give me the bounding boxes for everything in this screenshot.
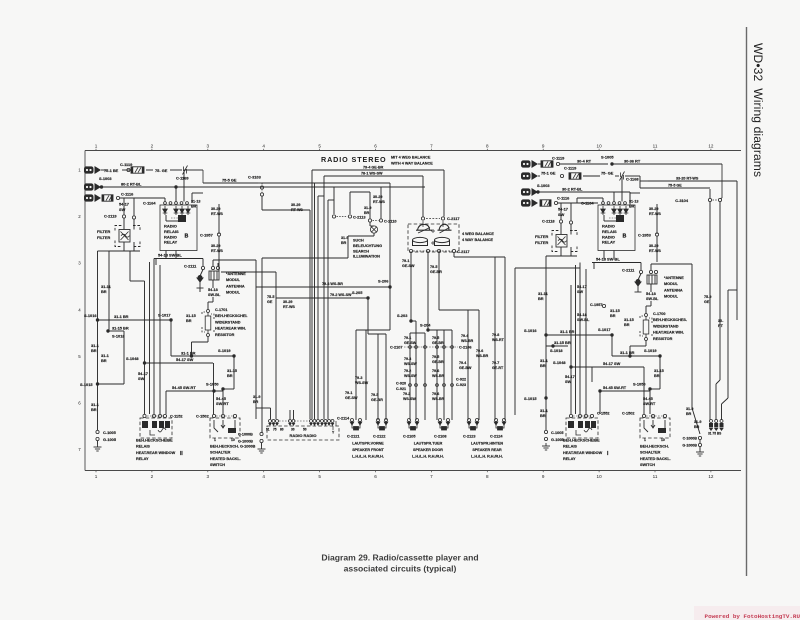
svg-text:79-3: 79-3 [355,376,362,380]
wire row2r d [625,175,640,177]
wire 30-29 relay right [656,204,658,234]
svg-text:BEH.HECKSCHEIBE: BEH.HECKSCHEIBE [563,439,600,443]
wire long vertical b top [221,271,276,273]
relay diode c left [180,206,185,215]
svg-text:30-29: 30-29 [373,195,382,199]
splice node S-204 [426,328,429,331]
label 31-9 BR lamp2 [341,236,348,245]
label 79-4 GE-BR rear2 [459,361,472,370]
svg-text:MODUL: MODUL [664,282,679,286]
label 79-5 GE-BR door [432,336,444,345]
label ANTENNE MODUL right [664,276,684,299]
connector C-2117 top a [421,217,424,220]
antenna module pin b right [654,270,657,273]
wire door col d [436,333,438,420]
title note MIT 4 WEG BALANCE [391,156,433,166]
svg-text:C-1953: C-1953 [638,233,652,238]
label RADIO RADIO [290,433,317,438]
speaker connector C-2123 [467,419,479,431]
label 30- right [718,319,724,328]
splice node S-1048 right [569,365,572,368]
wire right edge v 720 [719,202,721,381]
relay internal dash [171,217,178,219]
svg-text:BR: BR [540,413,546,418]
wire 54-18 right drop end [593,263,595,270]
svg-text:30-29: 30-29 [211,244,220,248]
svg-text:BR: BR [101,289,107,294]
terminal row1 left [127,168,130,171]
splice node S-1048 left [143,361,146,364]
svg-text:75-5 GE: 75-5 GE [222,178,237,183]
switch arrow a right [644,420,648,432]
relay blob d right [591,421,596,428]
svg-text:7: 7 [430,474,433,479]
svg-text:GE: GE [267,300,273,304]
label BEH HECKSCH SCHALTER left [210,445,256,468]
svg-text:BR: BR [101,358,107,363]
relay blob a right [568,421,574,428]
wire rear feed y310 [439,309,479,311]
wire row4r drop a [560,203,562,220]
svg-text:31-15: 31-15 [610,309,620,313]
svg-text:RT-WS: RT-WS [649,249,661,253]
label 30-29 RT-WS loops [373,195,385,204]
svg-text:2: 2 [78,214,81,219]
svg-text:31-1 BR: 31-1 BR [620,350,635,355]
svg-text:54-17: 54-17 [119,202,129,207]
svg-text:Powered by FotoHostingTV.RU: Powered by FotoHostingTV.RU [705,613,800,620]
wire radio feed v 328 [327,200,329,419]
svg-text:SCHALTER: SCHALTER [210,451,231,455]
svg-text:4: 4 [262,144,265,149]
svg-text:10: 10 [597,474,603,479]
wire filter left bottom a [123,242,125,251]
wire S-1017 down [170,320,172,356]
wire module out down [212,280,214,288]
svg-text:BR: BR [629,204,635,208]
wire switch feed drop [165,391,167,414]
svg-text:WS-BR: WS-BR [432,397,445,401]
connector C-2110 a [368,219,371,222]
wire 75-1 BE row1 a [101,169,107,171]
svg-text:RELAIS: RELAIS [164,229,179,234]
svg-text:S-1015: S-1015 [80,382,93,387]
wire relay feed v1 [144,281,146,414]
label 79-6 WS-BR rear [476,349,489,358]
svg-text:BEH.HECKSCHEIBE: BEH.HECKSCHEIBE [136,439,173,443]
connector C-2117 bottom b [426,249,429,252]
label LAUTSPR HINTEN [471,442,504,459]
svg-text:C-1119: C-1119 [120,162,133,167]
svg-text:BR: BR [654,374,660,378]
connector C-2113 a [332,215,335,218]
svg-text:RADIO: RADIO [602,224,615,229]
wire C-2118 to filter right [560,223,562,234]
svg-text:54-18 SW-BL: 54-18 SW-BL [158,253,182,258]
connector C-1957 terminal left [217,233,220,236]
label 31-1 right c [540,358,549,368]
wire right edge v 716 [715,384,717,420]
svg-text:30-29: 30-29 [649,244,658,248]
antenna mast symbol right [635,280,642,293]
wire 30-29 RT-WS relay right [218,204,220,234]
label 30-29 RT-WS mid [291,203,303,212]
svg-text:31-15: 31-15 [186,314,196,318]
radio relay right top terminals [0,0,1,1]
radio unit box [267,426,339,440]
radio pin dashed row [279,420,310,422]
svg-text:31-13: 31-13 [191,200,200,204]
label 79-8 WS-RT rear [492,333,505,342]
wire relay feed v1b [149,262,151,414]
svg-text:S-1018: S-1018 [550,348,563,353]
relay coil mark right [576,428,592,435]
svg-text:BELEUCHTUNG: BELEUCHTUNG [353,244,382,248]
wire 75-5 GE extend [262,182,390,184]
radio relay left top terminals C-1164 [0,0,1,1]
svg-text:11: 11 [653,144,658,149]
wire C-3103 link [261,183,263,186]
relay diode d left [186,206,191,215]
antenna module pin a right [649,270,652,273]
wire front sp b top [368,333,386,335]
wire relay right pin1 across b [576,198,578,203]
label 31-9 right edge [686,407,693,416]
svg-text:C-1552: C-1552 [597,412,609,416]
wire mid drop from 210 [309,210,311,419]
page sidebar divider rule [746,27,748,576]
wire C-2119 to filter [123,218,125,229]
noise filter right [552,231,577,252]
svg-text:GE-BR: GE-BR [432,341,444,345]
wire S-1019 down [233,356,235,389]
wire relay feed v2 [153,265,155,414]
svg-text:30-29: 30-29 [291,203,300,207]
wire C-2117 top dash [426,218,440,220]
svg-text:79-6 WS-BR: 79-6 WS-BR [322,282,343,286]
connector plug row 4 right [521,199,538,207]
label RADIO RELAIS right [602,224,617,245]
relay row right dashed [573,415,590,417]
label 54-17 SW v [138,371,148,381]
svg-text:75-5 GE: 75-5 GE [668,184,682,188]
svg-text:5: 5 [318,474,321,479]
label 54-45 right v [643,397,656,406]
label 54-17 right v [565,375,575,384]
balance pot 2 [438,224,452,233]
wire radio pin Y [332,426,334,430]
switch blob [228,428,236,433]
svg-text:*ANTENNE: *ANTENNE [664,276,684,280]
svg-text:SW-BL: SW-BL [577,318,590,322]
svg-text:GE-BR: GE-BR [432,360,444,364]
label 30-29 right v1 [649,207,661,216]
relay connector row right [0,0,1,1]
wire loop4 right drop [369,192,371,219]
svg-text:FILTER: FILTER [97,235,111,240]
wire switch right feed [643,367,645,415]
label 31-15 resistor right [624,318,634,327]
svg-text:6: 6 [78,401,81,406]
wire C-2111 down right [640,263,642,271]
ground symbol right trunk [542,443,550,450]
svg-text:51: 51 [266,428,270,432]
relay diode d right [624,206,629,215]
wire filter right out [546,255,577,257]
wire 54-45 right [600,390,650,392]
wire 30-36 RT drop [721,164,723,198]
splice node S-1003 right [536,190,539,193]
wire 54-18 right top [592,262,641,264]
splice node S-1017 right [610,333,613,336]
radio pins C-2114 [0,0,1,1]
svg-text:S-205: S-205 [352,290,363,295]
connector G-1000B right [698,443,701,446]
wire lamp gnd left2 [262,257,348,259]
label 31-1 BR d [101,353,110,363]
relay contact blob left [178,215,186,222]
wire left trunk top link [98,250,110,252]
svg-text:C-2105: C-2105 [403,435,415,439]
svg-text:31-9: 31-9 [686,407,693,411]
label LAUTSPR VORNE [352,442,384,459]
connector C-2117 bottom c [437,249,440,252]
svg-text:31-15 BR: 31-15 BR [112,326,129,331]
connector C-2113 b [348,215,351,218]
wire radio pin stub 270 [270,408,272,419]
svg-text:75-5: 75-5 [267,295,274,299]
connector plug row 1 right [521,160,538,168]
wire C-2111 down b [200,270,203,277]
svg-text:C-2123: C-2123 [463,435,475,439]
svg-text:75: 75 [273,428,277,432]
label 30-29 RT-WS v2 [211,244,223,253]
svg-text:54-17: 54-17 [565,375,575,379]
svg-text:78-1 WS-SW: 78-1 WS-SW [361,172,383,176]
label 31-15 right v3 [610,309,620,318]
wire relay pin4 up [191,193,193,203]
speaker connector C-2121 [350,419,362,431]
noise filter left [115,226,140,247]
splice node S-1015 right [544,396,547,399]
svg-text:S-1003: S-1003 [99,176,112,181]
wire 30-36 RT [612,163,722,165]
wire 79-6 WS-BR feeder [256,286,390,288]
wire row1 drop [202,170,204,183]
svg-text:9: 9 [542,474,545,479]
svg-text:C-2122: C-2122 [373,435,385,439]
wire C-2111 down [202,259,204,267]
wire module right down [650,284,652,292]
svg-text:BEH.HECKSCH.: BEH.HECKSCH. [640,445,669,449]
svg-text:3: 3 [207,474,210,479]
svg-text:54-17 SW: 54-17 SW [176,357,194,362]
label 54-18 right b [646,292,659,301]
switch connector row right [0,0,1,1]
svg-text:C-1957: C-1957 [200,233,213,238]
svg-text:S-1019: S-1019 [218,348,231,353]
connector C-2117 bottom a [409,249,412,252]
svg-text:30-2 RT-BL: 30-2 RT-BL [562,187,583,192]
wire bypass filter right2 [570,224,572,235]
svg-text:31-1 BR: 31-1 BR [181,351,196,356]
svg-text:C-1701: C-1701 [215,308,227,312]
relay blob b [152,421,157,428]
wire C-2117 bottom dash [413,250,452,252]
terminal row1r [556,162,559,165]
wire join s1050 [223,388,234,390]
node 54-45 t [212,389,215,392]
svg-text:80-2 RT-BL: 80-2 RT-BL [121,182,142,187]
wire lamp jog [370,225,374,227]
wire ground branch 31-11 BR [108,251,110,331]
antenna module pin b left [216,266,219,269]
label 31-13 BR left [191,200,200,209]
connector C-1957 low right [602,304,605,307]
wire door col b [415,333,417,420]
connector C-2118 b right [569,221,572,224]
svg-text:WS-SW: WS-SW [403,397,416,401]
splice C-1168 right [620,172,625,181]
svg-text:WIDERSTAND: WIDERSTAND [215,320,241,324]
svg-text:BR: BR [610,314,616,318]
wire C-2114 stub [335,421,337,426]
connector C-3104 a [708,198,711,201]
wire loop4 left vertical [349,192,351,214]
svg-text:S-1048: S-1048 [553,360,566,365]
splice node S-1019 [232,354,235,357]
speaker connector C-2108 [438,419,450,431]
wire front sp b2 [385,334,387,420]
svg-text:WS-SW: WS-SW [355,381,369,385]
wire module feed jog [692,408,700,434]
label FILTER FILTER left [97,229,111,240]
label 31-9 BR radio [253,395,260,404]
connector C-2110 b [379,219,382,222]
wire 54-45 drop [222,391,224,414]
wire S-206 drop [389,287,391,330]
wire relay right pin1 across c [577,197,603,199]
label FILTER FILTER right [535,234,549,245]
svg-text:WS-BR: WS-BR [432,374,445,378]
svg-text:RADIO STEREO: RADIO STEREO [321,155,387,164]
wire C-3103 down [261,196,263,210]
svg-text:ANTENNA: ANTENNA [226,284,245,288]
wire relay feed right v2 [579,269,581,414]
wire loop2 left vertical [323,176,325,419]
svg-text:C-2106: C-2106 [459,346,471,350]
wire left trunk vertical [97,251,99,430]
node relay pin2 tap [174,185,177,188]
wire spread front2 [355,330,357,420]
connector C-2117 bottom d [452,249,455,252]
wire radio feed v 318 [317,196,319,419]
svg-text:4 WAY BALANCE: 4 WAY BALANCE [462,238,493,242]
wire loop1 right drop to C-2117 [443,170,445,217]
wire row4r drop b [570,203,572,221]
bottom right plug a [709,420,713,432]
wire row2r a [538,175,540,177]
svg-text:SW: SW [577,290,584,294]
svg-text:RADIO: RADIO [602,234,615,239]
svg-text:G-1005: G-1005 [551,438,564,442]
svg-text:HEAT.REAR WINDOW: HEAT.REAR WINDOW [563,451,603,455]
wire module feed drop [691,264,693,408]
splice node S-1019 right [658,354,661,357]
svg-text:BEH.HECKSCHEI.: BEH.HECKSCHEI. [215,314,248,318]
wire module pin up b [217,263,219,267]
wire resistor right bottom [645,341,647,347]
svg-text:RELAIS: RELAIS [563,445,577,449]
connector C-2119 terminal b [132,216,135,219]
terminal row2r a [560,174,563,177]
heated backlight switch box left [210,418,240,438]
svg-text:79-4 GE-BR: 79-4 GE-BR [363,166,384,170]
wire door top b2 [436,330,438,333]
wire 54-17 SW S-1048 [145,362,214,364]
wire 54-45 SW-RT horiz [166,390,223,392]
svg-text:WS-RT: WS-RT [492,338,505,342]
wire relay feed tops2 [129,251,131,281]
connector C-2111 terminal right [639,270,642,273]
svg-text:Diagram 29. Radio/cassette pla: Diagram 29. Radio/cassette player and [321,553,478,563]
connector C-3104 b [718,198,721,201]
label 79-7 GE-RT rear2 [492,361,504,370]
wire right trunk [545,335,547,430]
svg-text:SW: SW [138,376,145,381]
svg-text:SW-RT: SW-RT [216,401,229,406]
wire S-206 feed drop [389,183,391,287]
wire loop1 79-4 GE-BR top [312,169,444,171]
svg-text:associated circuits (typical): associated circuits (typical) [344,564,457,574]
svg-text:RADIO: RADIO [164,234,177,239]
wire row2r b [583,175,600,177]
wire C-2110 dash [373,220,379,222]
svg-text:31-15 BR: 31-15 BR [554,340,571,345]
wire relay feed tops [130,280,145,282]
wire relay feed right v3 [585,269,587,414]
svg-text:MODUL: MODUL [664,295,679,299]
wire relay bottom down b [175,251,177,259]
label 79-1 GE-SW out [402,259,415,268]
label 54-17 right v2 [577,285,587,294]
connector C-1000B right [698,436,701,439]
svg-text:LAUTSPR.TUER: LAUTSPR.TUER [414,442,443,446]
wire relay right bottom b [613,251,615,259]
wire row4r [558,202,577,204]
wire 31-1 BR right [546,334,612,336]
svg-text:75-1 GE: 75-1 GE [541,171,556,176]
svg-text:10: 10 [597,144,603,149]
svg-text:C-2111: C-2111 [622,268,635,273]
svg-text:54-17: 54-17 [558,207,568,212]
svg-text:33-20 RT-WS: 33-20 RT-WS [676,177,699,181]
svg-text:C-2111: C-2111 [184,264,197,269]
svg-text:C-1119: C-1119 [552,156,565,161]
wire C-2111 down right b [638,274,641,281]
svg-text:10: 10 [661,438,665,442]
wire row1 c [170,169,182,171]
svg-text:SW-BL: SW-BL [646,297,659,301]
antenna module left [209,271,219,280]
antenna mast symbol left [197,276,204,289]
radio relay box left [160,205,197,251]
wire lamp gnd left [348,235,374,237]
connector C-2111 terminal left [201,266,204,269]
svg-text:BR: BR [227,373,233,378]
relay coil mark [150,428,166,435]
svg-text:C-1164: C-1164 [143,201,156,206]
